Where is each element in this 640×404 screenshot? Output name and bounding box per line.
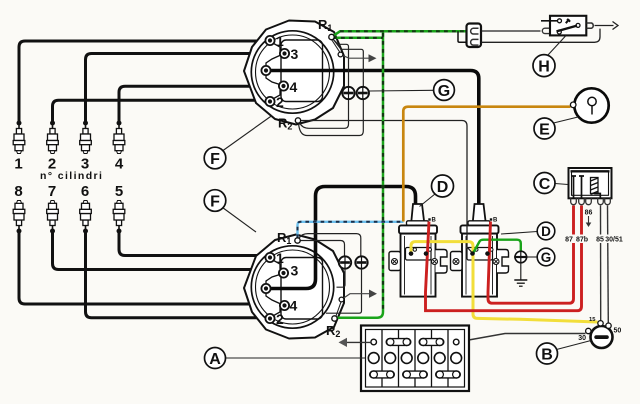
svg-text:3: 3 bbox=[291, 263, 299, 279]
wire plug1 to top distributor terminal 1 bbox=[19, 41, 264, 123]
wire orange: coil U1 negative to tachometer E bbox=[403, 107, 570, 222]
coil terminal dots overlay bbox=[409, 251, 413, 255]
switch terminal 15 bbox=[598, 321, 603, 326]
ignition coil U2 bbox=[451, 204, 509, 297]
spark plug 8 bbox=[13, 201, 25, 234]
svg-text:6: 6 bbox=[81, 183, 89, 200]
svg-text:4: 4 bbox=[290, 79, 298, 95]
connector (plug) top right bbox=[458, 31, 470, 42]
relay output wires 85 and 30/51 to switch bbox=[600, 206, 602, 321]
top distributor terminal labels bbox=[276, 33, 299, 327]
battery cell caps bbox=[368, 353, 461, 364]
capacitor ground stubs bottom bbox=[337, 268, 346, 287]
spark plug 1 bbox=[13, 121, 25, 154]
spark plug 7 bbox=[47, 201, 59, 234]
pointer line label G1 to capacitors bbox=[370, 89, 434, 92]
wire plug3 to top distributor terminal 3 bbox=[86, 54, 279, 124]
circled label C bbox=[534, 173, 555, 194]
circled label F1 bbox=[204, 147, 226, 169]
svg-text:n° cilindri: n° cilindri bbox=[40, 170, 103, 182]
pointer line label D2 to coil U2 bbox=[501, 232, 537, 235]
circled label B bbox=[537, 343, 558, 364]
wire blue dashed: bottom dist R1 to coil U1 bbox=[298, 222, 404, 238]
svg-text:C: C bbox=[539, 176, 551, 193]
switch H box bbox=[542, 28, 549, 33]
bottom distributor terminal 4 bbox=[280, 301, 289, 310]
wire plug4 to top distributor terminal 4 bbox=[119, 86, 277, 123]
spark plug 4 bbox=[113, 121, 125, 154]
svg-text:3: 3 bbox=[291, 46, 299, 62]
cylinder number labels row 1 bbox=[14, 156, 124, 201]
svg-text:30: 30 bbox=[578, 335, 586, 342]
svg-text:F: F bbox=[210, 193, 220, 210]
pointer line label D1 to coil U1 bbox=[420, 194, 436, 207]
wire red: coil U1 +B to relay 87b bbox=[426, 206, 582, 311]
distributor F (bottom) body, mirrored bbox=[244, 235, 344, 339]
aux terminal bottom distributor bbox=[339, 297, 344, 302]
battery ground lead with arrow bbox=[346, 341, 371, 343]
ignition coil U1 bbox=[389, 204, 447, 297]
bottom distributor terminal 1 bbox=[265, 253, 274, 262]
svg-text:5: 5 bbox=[115, 183, 123, 200]
breaker terminal R1 top distributor bbox=[329, 34, 334, 39]
breaker terminal R1 bottom distributor bbox=[295, 238, 300, 243]
svg-text:F: F bbox=[210, 151, 220, 168]
wire green: coil U2 terminal to ground bbox=[474, 240, 521, 253]
wire plug7 to bottom distributor terminal 3 bbox=[53, 231, 280, 270]
pointer line label H to switch bbox=[548, 36, 567, 56]
top distributor center HT terminal bbox=[261, 66, 270, 75]
battery cell links bottom bbox=[370, 371, 395, 378]
bottom distributor center HT terminal bbox=[261, 284, 270, 293]
svg-text:15: 15 bbox=[589, 317, 596, 323]
aux terminal top distributor bbox=[338, 52, 343, 57]
svg-text:4: 4 bbox=[290, 298, 298, 314]
wire green dashed vertical down to bottom dist R2 bbox=[336, 31, 383, 317]
bottom distributor terminal 2 bbox=[265, 314, 274, 323]
pointer line label G2 to ground bbox=[527, 256, 537, 258]
pointer line label C to relay bbox=[555, 184, 568, 185]
svg-text:7: 7 bbox=[48, 183, 56, 200]
wires connector to switch H bbox=[482, 30, 541, 32]
capacitor C2 top distributor bbox=[357, 87, 369, 99]
svg-text:G: G bbox=[541, 250, 552, 265]
svg-text:87b: 87b bbox=[576, 237, 588, 244]
wire plug2 to top distributor terminal 2 bbox=[53, 100, 265, 123]
relay C box bbox=[569, 168, 612, 198]
svg-text:86: 86 bbox=[585, 210, 593, 217]
battery A bbox=[361, 326, 469, 392]
capacitor C3 bottom distributor bbox=[339, 256, 351, 268]
thin wires: bottom dist R1 to capacitors bbox=[299, 234, 361, 257]
svg-text:B: B bbox=[541, 346, 553, 363]
arrow at top distributor aux terminal bbox=[341, 55, 370, 59]
capacitor C4 bottom distributor bbox=[355, 256, 367, 268]
svg-text:2: 2 bbox=[276, 94, 284, 110]
svg-text:1: 1 bbox=[276, 33, 284, 49]
breaker terminal R2 bottom distributor bbox=[332, 316, 337, 321]
pointer line label E to tach bbox=[554, 117, 579, 123]
svg-text:D: D bbox=[541, 224, 551, 239]
circled label G1 bbox=[434, 80, 455, 101]
spark plug 6 bbox=[80, 201, 92, 234]
bottom distributor terminal 3 bbox=[279, 268, 288, 277]
ignition switch B wire from battery bbox=[458, 334, 586, 343]
wire plug8 to bottom distributor terminal 4 bbox=[19, 231, 279, 304]
circled label F2 bbox=[204, 190, 226, 212]
svg-text:2: 2 bbox=[276, 311, 284, 327]
switch terminal 30 bbox=[586, 328, 591, 333]
top distributor terminal 4 bbox=[279, 81, 288, 90]
thin wires: top dist R2 to capacitors bbox=[300, 99, 349, 128]
wire yellow: coil terminals to ignition switch 15 bbox=[411, 242, 598, 322]
pointer line label A to battery bbox=[226, 357, 366, 359]
arrow at bottom distributor aux terminal bbox=[342, 294, 370, 300]
relay coil winding bbox=[591, 178, 599, 194]
ground symbol near coil U2 bbox=[515, 251, 527, 263]
top distributor terminal 2 bbox=[265, 97, 274, 106]
wire green: top dist R1 to connector (solid under-layer) bbox=[332, 31, 468, 37]
circled label A bbox=[204, 55, 557, 369]
pointer line label F1 to top distributor bbox=[223, 116, 272, 151]
wire plug6 to bottom distributor terminal 2 bbox=[86, 231, 265, 318]
spark plug 5 bbox=[113, 201, 125, 234]
spark plug 3 bbox=[80, 121, 92, 154]
wire plug5 to bottom distributor terminal 1 bbox=[119, 231, 265, 256]
svg-text:30/51: 30/51 bbox=[605, 237, 623, 244]
relay contact bars bbox=[571, 176, 584, 198]
battery terminals bbox=[371, 339, 377, 345]
black dash overlay on green wires bbox=[333, 31, 467, 312]
wire green dashed branch: R1 run to vertical bbox=[333, 37, 383, 40]
svg-text:E: E bbox=[539, 121, 550, 138]
svg-text:50: 50 bbox=[614, 328, 622, 335]
svg-text:8: 8 bbox=[14, 183, 22, 200]
thin wires: capacitors to top dist R1 bbox=[333, 39, 349, 88]
svg-text:A: A bbox=[209, 351, 221, 368]
svg-text:D: D bbox=[437, 179, 449, 196]
relay wire labels bbox=[563, 235, 625, 244]
svg-text:1: 1 bbox=[14, 156, 22, 173]
thin wire: top dist R2 to coil U2 terminal bbox=[301, 121, 472, 253]
circled label D2 bbox=[537, 222, 555, 240]
wire red: coil U2 +B to relay 87 bbox=[488, 206, 574, 304]
svg-text:G: G bbox=[438, 83, 450, 100]
HT lead: top distributor center to coil U2 tower bbox=[266, 71, 479, 207]
battery cell links top bbox=[386, 338, 411, 345]
svg-text:1: 1 bbox=[276, 250, 284, 266]
capacitor C1 top distributor bbox=[342, 87, 354, 99]
top distributor terminal 3 bbox=[280, 49, 289, 58]
spark plug 2 bbox=[47, 121, 59, 154]
tachometer E bbox=[574, 88, 608, 122]
breaker terminal R2 top distributor bbox=[295, 118, 300, 123]
switch H right terminal and arrow bbox=[587, 23, 594, 28]
circled label D1 bbox=[432, 175, 454, 197]
circled label G2 bbox=[537, 248, 555, 266]
svg-text:4: 4 bbox=[115, 156, 124, 173]
switch terminal 50 bbox=[606, 323, 611, 328]
pointer line label B to switch bbox=[557, 341, 592, 350]
circled label E bbox=[534, 118, 555, 139]
pointer line label F2 to bottom distributor bbox=[223, 208, 257, 233]
top distributor terminal 1 bbox=[265, 36, 274, 45]
svg-text:H: H bbox=[538, 58, 550, 75]
svg-text:87: 87 bbox=[565, 237, 573, 244]
relay terminal sockets bbox=[571, 198, 611, 204]
ignition switch B bbox=[591, 326, 613, 348]
HT lead: bottom distributor center to coil U1 tower bbox=[267, 187, 416, 289]
distributor F (top) body bbox=[244, 21, 344, 125]
svg-text:85: 85 bbox=[596, 237, 604, 244]
circled label H bbox=[533, 55, 555, 77]
